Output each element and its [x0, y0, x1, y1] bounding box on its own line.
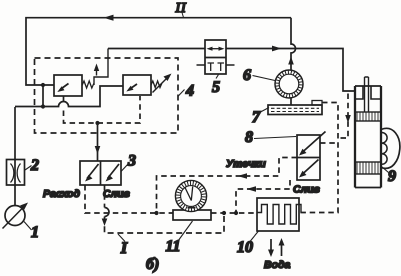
flow meter 6 body with knurled ring [275, 70, 303, 98]
water flow arrows [270, 239, 272, 252]
valve 5 side stubs [197, 64, 235, 66]
svg-text:8: 8 [245, 129, 253, 146]
tick from label II to wire [182, 13, 184, 18]
filter 2 body [7, 160, 25, 186]
label pointer to 2 [25, 166, 32, 171]
label pointer to 6 [253, 76, 276, 81]
valve 5 double arrow in upper cell [209, 48, 222, 50]
svg-text:5: 5 [212, 79, 220, 96]
node B junction dot on pump line [41, 104, 45, 108]
label pointer to 10 [250, 231, 259, 242]
node A junction dot on y=85 wire [41, 83, 45, 87]
dashed tank drain from valve 3 right cell with arrow to line I [104, 185, 106, 208]
counter 11 dial with knurled ring [175, 180, 206, 211]
main measuring line from vent corner through valve 5 to cylinder [108, 48, 205, 50]
dashed leak line from cylinder head down with arrow [338, 94, 348, 139]
cylinder 9 lower plug with hatch [355, 162, 381, 174]
label pointer to 4 [178, 90, 185, 97]
svg-text:Утечки: Утечки [226, 158, 266, 170]
overflow valve (left valve of unit 4) body [54, 75, 82, 96]
dashed drain line from valve 8 bottom to cooler junction [236, 180, 290, 213]
svg-text:Расход: Расход [43, 188, 81, 200]
pump 1 arrow [3, 206, 26, 229]
counter 11 hands [185, 187, 193, 201]
arrow on drain line pointing left [247, 186, 257, 192]
dashed drain from plate 7 down right side to cooler 10 [299, 103, 338, 213]
arrow on leak line pointing left [238, 173, 248, 179]
valve 3 body (flow/drain selector) [80, 161, 121, 185]
valve 3 right cell arrow [108, 164, 120, 179]
svg-text:II: II [175, 1, 187, 16]
friction plate 7 body [268, 105, 322, 115]
wire pump pressure line horizontal with hump bridge over drain, corner up to valve right port [15, 86, 123, 107]
wire jumper from y=85 wire down to pump line [42, 85, 44, 107]
label pointer to 9 [382, 167, 389, 173]
valve 3 left cell arrow [87, 164, 99, 179]
wire vent line from spring chamber up and right to main measuring line [94, 49, 108, 86]
svg-text:7: 7 [252, 109, 261, 126]
counter 11 base plinth [173, 210, 211, 220]
svg-text:1: 1 [31, 224, 39, 241]
svg-text:Слив: Слив [293, 184, 321, 196]
pressure valve internal arrow [131, 84, 138, 89]
overflow valve internal arrow [62, 84, 69, 89]
label pointer to I [118, 234, 125, 242]
cylinder 9 group [355, 77, 400, 188]
node D junction dot leak line into counter line [154, 211, 158, 215]
label pointer to 1 [24, 222, 32, 231]
wire feed to valve 3 with down arrow [97, 124, 99, 161]
dashed measured-flow drain from valve 3 left cell to counter 11 [85, 185, 173, 213]
pump 1 body [5, 206, 25, 226]
svg-text:9: 9 [388, 168, 396, 185]
flow arrow pointing up into junction [288, 57, 294, 65]
cylinder 9 side spring clip [381, 128, 400, 168]
dashed counter line right side with junction dots [211, 212, 257, 214]
valve 5 body (shut-off valve, two positions) [205, 40, 226, 74]
valve 5 blocked ports in lower cell [208, 63, 225, 71]
svg-text:4: 4 [185, 83, 194, 100]
cylinder 9 piston with hatch [355, 112, 381, 121]
valve 8 upper cell arrow [302, 132, 326, 153]
wire flow meter to friction plate 7 [290, 98, 292, 106]
wire drain of overflow valve crossing pump line (bridge) then dashed to junction [63, 96, 65, 102]
svg-text:б): б) [146, 256, 159, 273]
svg-text:11: 11 [165, 238, 180, 255]
dashed link valve 8 right port to drain line [320, 142, 338, 144]
spring of pressure valve [151, 81, 162, 88]
node C junction dot drain/control [95, 121, 99, 125]
cylinder 9 head gland blocks [355, 86, 381, 99]
unit 4 dashed enclosure box [35, 58, 179, 133]
svg-text:3: 3 [127, 153, 136, 170]
adjustment arrow across spring [153, 76, 170, 93]
wire from line II corner down with S-jog crossing main line, to flow meter 6 [291, 18, 296, 71]
valve 8 lower cell arrow [302, 160, 319, 175]
filter 2 arcs [11, 164, 21, 183]
label pointer to 7 [260, 108, 270, 113]
arrow on line II pointing left [104, 15, 114, 21]
spring of overflow valve [82, 81, 94, 88]
label pointer to 5 [216, 75, 219, 79]
dashed leak measuring line from valve 8 to counter loop [157, 158, 298, 214]
valve 8 body (two-stage drain valve) [297, 135, 320, 180]
cooler 10 serpentine coil [257, 205, 301, 225]
cylinder 9 barrel walls [355, 86, 381, 188]
flow arrow pointing right on main line [272, 46, 282, 52]
wire pump riser from pump up through filter 2 [14, 107, 16, 206]
cooler 10 body [257, 198, 299, 231]
vent arrow pointing up [96, 67, 98, 76]
cylinder 9 piston rod [365, 77, 369, 112]
svg-text:10: 10 [237, 239, 253, 256]
svg-text:Слив: Слив [103, 188, 131, 200]
wire line II top horizontal with left corner down to valve unit [26, 18, 291, 85]
label pointer to 11 [178, 221, 193, 241]
label pointer to 3 [121, 164, 129, 172]
svg-text:6: 6 [243, 67, 251, 84]
svg-text:I: I [120, 240, 128, 257]
pressure valve (right valve of unit 4) body [123, 75, 151, 95]
svg-text:Вода: Вода [264, 259, 290, 271]
label pointer to 8 [254, 137, 296, 139]
svg-text:2: 2 [30, 157, 39, 174]
